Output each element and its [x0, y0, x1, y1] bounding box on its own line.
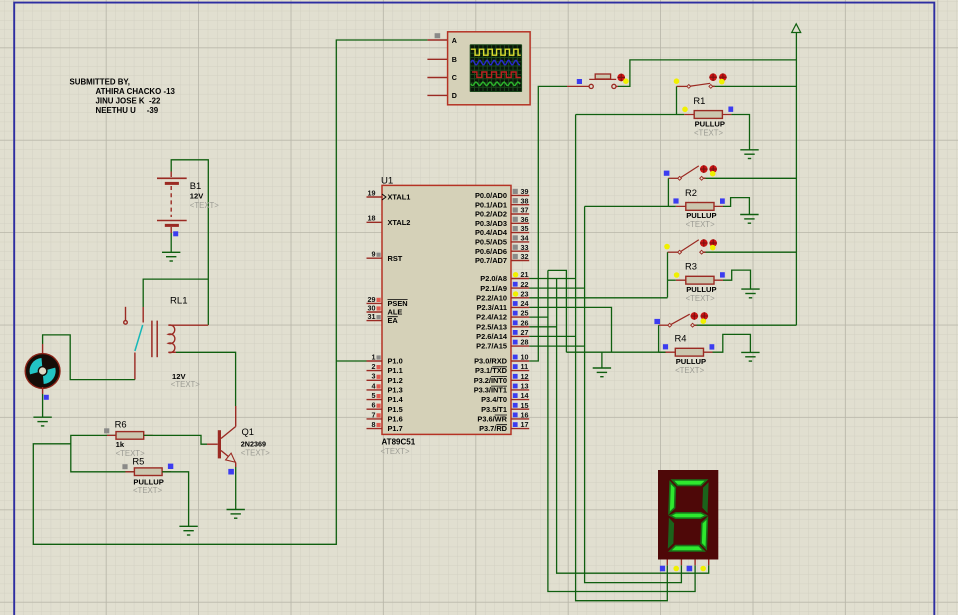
Q1 labels	[241, 426, 270, 457]
relay coil bottom lead	[168, 351, 176, 353]
R3 right indicator	[720, 272, 725, 277]
svg-text:P2.2/A10: P2.2/A10	[476, 293, 507, 302]
microcontroller U1 body	[382, 185, 511, 434]
svg-text:<TEXT>: <TEXT>	[694, 128, 723, 137]
svg-text:XTAL2: XTAL2	[388, 218, 411, 227]
svg-text:33: 33	[521, 243, 529, 252]
svg-text:P1.0: P1.0	[388, 357, 403, 366]
svg-text:A: A	[452, 37, 457, 45]
wire SW2 left down	[667, 178, 669, 206]
wire P2.6 row	[529, 335, 575, 337]
wire P2.4 row	[529, 316, 548, 318]
svg-text:21: 21	[521, 270, 529, 279]
svg-text:P0.1/AD1: P0.1/AD1	[475, 200, 507, 209]
svg-text:23: 23	[521, 289, 529, 298]
relay coil top lead	[168, 324, 208, 326]
wire SW4 right to power rail	[693, 324, 797, 326]
LED D2b	[709, 165, 717, 173]
wire SW4 left down	[658, 325, 660, 352]
oscilloscope body	[448, 32, 530, 105]
battery labels	[190, 180, 219, 210]
svg-text:34: 34	[521, 234, 529, 243]
7-segment display body	[658, 470, 718, 560]
push button	[567, 74, 618, 89]
wire Q1 emitter to ground	[235, 467, 237, 510]
svg-text:EA: EA	[388, 316, 399, 325]
indicator LED1 node	[719, 79, 725, 85]
svg-text:P3.2/INT0: P3.2/INT0	[474, 376, 507, 385]
U1 left pin numbers	[368, 188, 376, 429]
switch SW3	[668, 240, 706, 252]
svg-text:14: 14	[521, 391, 529, 400]
svg-text:1: 1	[372, 352, 376, 361]
U1 right pin names	[474, 191, 508, 433]
power terminal arrow	[792, 24, 801, 33]
wire R4 left lead	[659, 351, 666, 353]
svg-text:<TEXT>: <TEXT>	[171, 380, 200, 389]
svg-text:P0.3/AD3: P0.3/AD3	[475, 219, 507, 228]
svg-text:P0.6/AD6: P0.6/AD6	[475, 247, 507, 256]
U1 right pin stubs	[511, 195, 529, 428]
svg-text:NEETHU U -39: NEETHU U -39	[96, 106, 159, 115]
svg-text:28: 28	[521, 338, 529, 347]
svg-text:16: 16	[521, 411, 529, 420]
svg-text:JINU JOSE K -22: JINU JOSE K -22	[96, 97, 162, 106]
node state square SW2 left	[664, 171, 670, 176]
svg-text:8: 8	[372, 420, 376, 429]
ground motor	[33, 417, 51, 426]
svg-text:2: 2	[372, 362, 376, 371]
wire R3 right lead to ground	[723, 270, 751, 289]
svg-text:P2.0/A8: P2.0/A8	[480, 274, 507, 283]
svg-text:U1: U1	[381, 176, 393, 187]
svg-text:SUBMITTED BY,: SUBMITTED BY,	[70, 78, 131, 87]
svg-text:ATHIRA CHACKO -13: ATHIRA CHACKO -13	[96, 87, 176, 96]
U1 left pin stubs	[367, 197, 383, 429]
svg-text:P0.4/AD4: P0.4/AD4	[475, 228, 508, 237]
relay NC contact stub	[124, 307, 128, 324]
svg-text:P2.4/A12: P2.4/A12	[476, 313, 507, 322]
oscilloscope channel labels	[452, 37, 457, 100]
svg-text:12V: 12V	[190, 192, 204, 201]
svg-text:24: 24	[521, 299, 529, 308]
svg-text:4: 4	[372, 381, 376, 390]
svg-text:15: 15	[521, 401, 529, 410]
svg-text:C: C	[452, 74, 457, 82]
resistor R2	[676, 203, 723, 211]
R4 input indicator	[663, 344, 668, 349]
svg-text:P2.5/A13: P2.5/A13	[476, 322, 507, 331]
ground R2	[740, 215, 758, 224]
svg-text:5: 5	[372, 391, 376, 400]
7-segment digit	[668, 480, 709, 551]
LED button indicator	[617, 74, 625, 82]
wire SW3 left down	[667, 252, 669, 280]
wire R1 left lead	[677, 114, 685, 116]
LED D2a	[700, 165, 708, 173]
svg-text:17: 17	[521, 420, 529, 429]
wire vertical bus v5	[576, 115, 668, 601]
indicator button LED node	[623, 78, 629, 84]
wire power rail vertical	[795, 33, 797, 326]
relay NO contact stub	[134, 353, 136, 380]
relay labels	[171, 372, 200, 389]
resistor R5	[125, 468, 171, 476]
indicator SW3 left node	[664, 244, 670, 250]
node state square Q1 emitter	[228, 469, 234, 475]
svg-text:R5: R5	[132, 455, 144, 466]
indicator LED2 node	[710, 171, 716, 177]
svg-text:22: 22	[521, 280, 529, 289]
wire battery top loop	[171, 160, 208, 325]
svg-text:P0.0/AD0: P0.0/AD0	[475, 191, 507, 200]
svg-text:<TEXT>: <TEXT>	[381, 447, 410, 456]
svg-text:27: 27	[521, 328, 529, 337]
svg-text:P3.3/INT1: P3.3/INT1	[474, 386, 507, 395]
svg-text:R2: R2	[685, 187, 697, 198]
wire vertical bus v6	[585, 206, 682, 582]
motor top stub	[42, 344, 44, 355]
svg-text:19: 19	[368, 188, 376, 197]
svg-text:9: 9	[372, 250, 376, 259]
svg-text:AT89C51: AT89C51	[382, 438, 416, 447]
relay coil core	[152, 321, 157, 358]
indicator LED4 node	[701, 318, 707, 324]
svg-text:18: 18	[368, 214, 376, 223]
wire P2.0 row	[529, 278, 575, 280]
LED D1b	[719, 73, 727, 81]
waveform channel A yellow	[471, 49, 521, 55]
ground Q1	[227, 510, 245, 519]
svg-text:<TEXT>: <TEXT>	[241, 448, 270, 457]
svg-text:P1.7: P1.7	[388, 424, 403, 433]
svg-text:6: 6	[372, 401, 376, 410]
U1 left pin state squares	[377, 253, 381, 428]
R2 labels	[685, 187, 717, 229]
svg-text:Q1: Q1	[242, 426, 255, 437]
R4 right indicator	[710, 344, 715, 349]
svg-text:R1: R1	[693, 95, 705, 106]
U1 left pin names	[388, 193, 411, 434]
svg-text:R3: R3	[685, 261, 697, 272]
LED D3b	[709, 239, 717, 247]
indicator SW1 left node	[674, 78, 680, 84]
R5 labels	[132, 455, 163, 495]
svg-text:3: 3	[372, 372, 376, 381]
svg-text:26: 26	[521, 318, 529, 327]
wire R3 left lead	[668, 279, 676, 281]
svg-text:P0.5/AD5: P0.5/AD5	[475, 238, 507, 247]
waveform channel C red	[472, 72, 521, 77]
wire R2 right lead to ground	[723, 198, 749, 215]
wire ground tap wire	[601, 352, 603, 368]
svg-text:P2.7/A15: P2.7/A15	[476, 342, 507, 351]
R6 labels	[115, 419, 145, 458]
R3 labels	[685, 261, 717, 303]
node state square motor	[44, 395, 49, 400]
wire SW3 right to power rail	[702, 251, 797, 253]
relay pivot stub	[142, 307, 144, 323]
wire SW1 right to power rail	[711, 85, 797, 87]
R2 input indicator	[673, 198, 678, 203]
wire scope A to base node	[33, 40, 427, 544]
svg-text:37: 37	[521, 206, 529, 215]
wire R6 left node	[71, 435, 135, 471]
wire R4 input row	[566, 351, 666, 353]
resistor R4	[665, 348, 712, 356]
transistor Q1	[207, 406, 236, 467]
relay armature	[135, 325, 143, 351]
svg-text:P0.2/AD2: P0.2/AD2	[475, 210, 507, 219]
svg-text:P3.1/TXD: P3.1/TXD	[475, 366, 508, 375]
wire coil bottom to Q1 collector	[176, 352, 236, 406]
svg-text:XTAL1: XTAL1	[388, 193, 411, 202]
node state square button left	[577, 79, 582, 84]
node state square R6	[104, 428, 109, 433]
oscilloscope screen	[470, 45, 521, 92]
LED D3a	[700, 239, 708, 247]
svg-text:P3.0/RXD: P3.0/RXD	[474, 357, 508, 366]
wire P2.5 row	[529, 326, 556, 328]
ground mid	[593, 368, 611, 377]
svg-text:P2.1/A9: P2.1/A9	[480, 284, 507, 293]
wire battery to ground	[170, 233, 172, 252]
svg-text:36: 36	[521, 215, 529, 224]
wire P3.0 row to button	[529, 86, 567, 361]
waveform channel D green	[471, 82, 520, 86]
svg-text:39: 39	[521, 187, 529, 196]
svg-text:10: 10	[521, 353, 529, 362]
svg-text:2N2369: 2N2369	[241, 439, 266, 448]
node state indicators display	[660, 566, 706, 572]
svg-text:PULLUP: PULLUP	[695, 119, 725, 128]
svg-text:P3.7/RD: P3.7/RD	[479, 424, 508, 433]
ground R1	[740, 150, 758, 159]
svg-text:35: 35	[521, 224, 529, 233]
wire vertical bus v3	[557, 279, 709, 574]
wire P1.0 to base net	[336, 360, 366, 362]
svg-text:B1: B1	[190, 180, 201, 191]
svg-text:7: 7	[372, 410, 376, 419]
wire button right to power	[618, 60, 796, 87]
svg-text:P0.7/AD7: P0.7/AD7	[475, 256, 507, 265]
ground R4	[741, 352, 759, 361]
resistor R3	[676, 276, 723, 284]
relay coil windings	[168, 325, 174, 353]
XTAL1 clock marker	[382, 194, 386, 200]
indicator R3 left node	[674, 272, 680, 278]
LED D4a	[691, 312, 699, 320]
svg-text:RST: RST	[388, 254, 403, 263]
svg-text:PULLUP: PULLUP	[686, 211, 716, 220]
U1 right pin state indicators	[513, 189, 519, 427]
indicator R1 left node	[682, 107, 688, 113]
svg-text:P3.4/T0: P3.4/T0	[481, 395, 507, 404]
wire SW3 vertical extension	[667, 280, 669, 297]
selection handle square	[435, 33, 441, 38]
svg-text:12: 12	[521, 372, 529, 381]
ground battery	[162, 252, 180, 261]
svg-text:31: 31	[368, 312, 376, 321]
ground R3	[741, 289, 759, 298]
wire motor to ground	[42, 394, 44, 417]
wire P2.1 row	[529, 287, 584, 289]
wire relay NO to motor	[43, 335, 135, 380]
switch SW1	[677, 83, 715, 86]
wire R2 input row	[585, 205, 669, 207]
wire R4 right lead to ground	[713, 334, 751, 352]
svg-text:P1.4: P1.4	[388, 395, 404, 404]
switch SW4	[659, 314, 697, 325]
wire R6 to Q1 base	[144, 435, 207, 444]
resistor R6	[107, 432, 153, 440]
svg-text:13: 13	[521, 382, 529, 391]
svg-text:P1.1: P1.1	[388, 366, 403, 375]
svg-text:P1.5: P1.5	[388, 405, 403, 414]
svg-text:P3.5/T1: P3.5/T1	[481, 405, 507, 414]
LED D1a	[709, 73, 717, 81]
svg-text:PULLUP: PULLUP	[676, 357, 706, 366]
wire R5 right to ground	[162, 472, 189, 527]
wire R1 input row	[576, 114, 677, 116]
title text block	[70, 78, 176, 116]
node state squares R5	[122, 464, 127, 469]
svg-text:32: 32	[521, 252, 529, 261]
wire vertical bus v2	[548, 270, 695, 591]
oscilloscope pin stubs	[427, 40, 447, 95]
svg-text:38: 38	[521, 196, 529, 205]
wire relay pivot branch	[143, 279, 208, 307]
wire P2.3 row to R4	[529, 307, 611, 352]
7-segment pin stubs	[667, 560, 708, 566]
motor bottom stub	[42, 387, 44, 394]
wire R1 right lead to ground	[731, 115, 749, 150]
svg-text:<TEXT>: <TEXT>	[133, 486, 162, 495]
R1 right indicator	[728, 107, 733, 112]
LED D4b	[701, 312, 709, 320]
R1 labels	[693, 95, 725, 137]
U1 labels	[381, 176, 416, 456]
svg-text:P3.6/WR: P3.6/WR	[477, 415, 507, 424]
svg-text:P2.6/A14: P2.6/A14	[476, 332, 508, 341]
resistor R1	[684, 111, 731, 119]
svg-text:25: 25	[521, 309, 529, 318]
svg-text:11: 11	[521, 362, 529, 371]
wire SW2 right to power rail	[702, 177, 797, 179]
svg-text:B: B	[452, 56, 457, 64]
svg-text:R4: R4	[675, 333, 687, 344]
svg-text:P1.6: P1.6	[388, 415, 403, 424]
waveform channel B blue	[471, 61, 520, 65]
svg-text:<TEXT>: <TEXT>	[686, 220, 715, 229]
wire bump jog	[548, 270, 567, 352]
R2 right indicator	[720, 198, 725, 203]
wire R2 left lead	[668, 205, 675, 207]
indicator LED3 node	[710, 245, 716, 251]
node state square battery	[173, 231, 178, 236]
svg-text:R6: R6	[115, 419, 127, 430]
ground R5	[179, 526, 197, 535]
U1 right pin numbers	[521, 187, 529, 429]
node state square SW4 left	[654, 319, 660, 324]
wire SW1 left down	[676, 86, 678, 114]
svg-text:D: D	[452, 92, 457, 100]
svg-text:P2.3/A11: P2.3/A11	[477, 303, 507, 312]
svg-text:1k: 1k	[116, 440, 125, 449]
svg-text:PULLUP: PULLUP	[686, 285, 716, 294]
wire P2.7 row	[529, 345, 584, 347]
switch SW2	[668, 166, 705, 178]
battery B1	[157, 172, 187, 234]
motor	[25, 354, 60, 389]
svg-text:RL1: RL1	[170, 295, 188, 306]
svg-text:P1.2: P1.2	[388, 376, 403, 385]
wire P2.2 row to R3	[529, 297, 667, 299]
svg-text:<TEXT>: <TEXT>	[686, 294, 715, 303]
R4 labels	[675, 333, 707, 375]
svg-text:P1.3: P1.3	[388, 386, 403, 395]
svg-text:<TEXT>: <TEXT>	[190, 201, 219, 210]
svg-text:<TEXT>: <TEXT>	[675, 366, 704, 375]
